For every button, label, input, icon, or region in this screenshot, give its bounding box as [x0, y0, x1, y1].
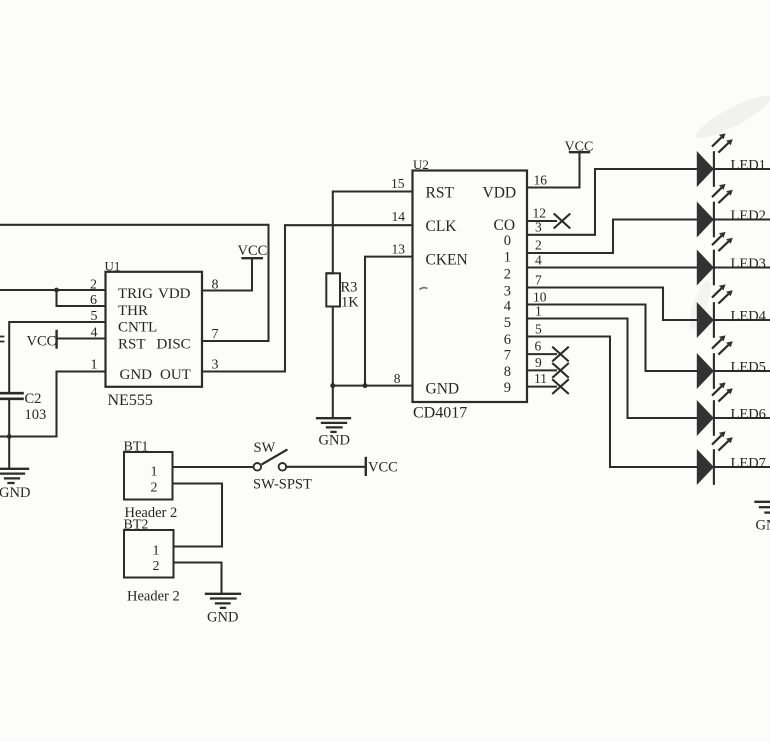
- wire U2 pin12 CO stub: [527, 220, 556, 222]
- svg-text:LED7: LED7: [731, 456, 766, 472]
- power VCC symbol above U2 pin16: [570, 151, 589, 153]
- IC U2 CD4017 box: [413, 171, 528, 403]
- node junction C2 bottom: [7, 434, 12, 439]
- wire BT1 pin1 to switch: [173, 466, 254, 468]
- wire Q1 pin2 to LED2: [527, 220, 698, 254]
- header BT1 box: [124, 452, 173, 500]
- svg-text:LED5: LED5: [731, 360, 766, 376]
- power VCC port bar at U1 pin4: [55, 331, 57, 348]
- wire DISC net to left edge: [0, 225, 269, 341]
- wire Q6 pin5 to LED7: [527, 337, 698, 468]
- scan smudge streak: [685, 278, 716, 332]
- LED D5: [697, 335, 770, 387]
- svg-text:LED2: LED2: [731, 208, 766, 224]
- wire U1 pin8 to VCC: [202, 258, 252, 290]
- svg-text:2: 2: [90, 278, 97, 293]
- op-amp U1 NE555 box: [106, 272, 203, 387]
- svg-text:SW-SPST: SW-SPST: [253, 477, 312, 493]
- svg-text:2: 2: [535, 238, 542, 253]
- no-connect X pin9: [553, 364, 568, 377]
- wire CNTL pin5 down to C2: [9, 322, 105, 393]
- wire Q3 pin7 to LED4: [527, 288, 698, 321]
- svg-text:5: 5: [91, 309, 98, 324]
- svg-text:7: 7: [535, 273, 542, 288]
- svg-text:3: 3: [535, 220, 542, 235]
- svg-text:3: 3: [212, 358, 219, 373]
- wire Q7 pin6 stub: [527, 353, 556, 355]
- svg-text:U2: U2: [413, 157, 429, 172]
- svg-text:8: 8: [394, 371, 401, 386]
- svg-text:1: 1: [153, 544, 160, 559]
- svg-text:9: 9: [504, 380, 511, 396]
- svg-text:6: 6: [535, 339, 542, 354]
- svg-text:VCC: VCC: [238, 243, 268, 259]
- wire GND net to U2 pin8: [333, 385, 413, 387]
- svg-text:RST: RST: [118, 337, 146, 353]
- wire Q9 pin11 stub: [527, 386, 556, 388]
- LED D3: [697, 232, 770, 284]
- LED D1: [697, 133, 770, 185]
- wire switch to VCC: [286, 466, 366, 468]
- svg-text:BT1: BT1: [124, 440, 149, 455]
- LED D6: [697, 382, 770, 434]
- resistor R3 body: [326, 273, 340, 306]
- svg-text:15: 15: [391, 176, 405, 191]
- svg-text:GND: GND: [120, 367, 153, 383]
- svg-text:LED6: LED6: [731, 407, 766, 423]
- scan tick near CKEN: [420, 288, 428, 290]
- power VCC symbol above U1 pin8: [243, 257, 262, 259]
- svg-text:U1: U1: [105, 259, 121, 274]
- svg-text:5: 5: [504, 315, 511, 331]
- svg-text:1K: 1K: [341, 295, 359, 311]
- wire Q2 pin4 to LED3: [527, 266, 698, 268]
- wire R3 top to RST pin15: [327, 192, 413, 274]
- wire BT1 pin2 to BT2 pin1: [173, 484, 223, 547]
- svg-text:VDD: VDD: [483, 185, 517, 202]
- svg-text:0: 0: [504, 233, 511, 249]
- svg-text:1: 1: [91, 358, 98, 373]
- svg-text:1: 1: [535, 304, 542, 319]
- wire U2 pin16 VDD to VCC: [527, 152, 580, 187]
- wire THR pin6 tie to pin2: [57, 290, 106, 306]
- wire C2 bottom lead: [8, 400, 10, 469]
- node junction CKEN gnd: [363, 383, 368, 388]
- svg-text:7: 7: [504, 348, 511, 364]
- wire Q4 pin10 to LED5: [527, 305, 698, 372]
- svg-text:5: 5: [535, 322, 542, 337]
- no-connect X pin11: [553, 380, 568, 393]
- svg-text:TRIG: TRIG: [118, 286, 153, 302]
- svg-text:4: 4: [91, 326, 98, 341]
- power VCC port bar at switch: [365, 458, 367, 475]
- svg-text:11: 11: [534, 371, 547, 386]
- ground symbol bottom-left: [0, 469, 28, 483]
- svg-text:CNTL: CNTL: [118, 320, 157, 336]
- wire GND net down to ground: [332, 386, 334, 418]
- svg-text:6: 6: [90, 293, 97, 308]
- svg-text:10: 10: [533, 290, 547, 305]
- svg-text:2: 2: [151, 481, 158, 496]
- wire Q8 pin9 stub: [527, 369, 556, 371]
- svg-text:1: 1: [151, 465, 158, 480]
- node junction R3 gnd: [330, 383, 335, 388]
- svg-text:2: 2: [504, 267, 511, 283]
- svg-text:4: 4: [535, 253, 542, 268]
- svg-text:CLK: CLK: [426, 218, 458, 235]
- wire Q5 pin1 to LED6: [527, 319, 698, 419]
- ground symbol right edge: [756, 502, 770, 513]
- svg-text:8: 8: [504, 364, 511, 380]
- wire GND pin1 down to C2 bottom node: [0, 372, 106, 437]
- svg-text:VCC: VCC: [565, 140, 594, 155]
- wire RST pin4 to VCC port: [57, 337, 106, 339]
- switch SW contact circles: [253, 463, 261, 471]
- wire TRIG pin2 to left edge: [0, 289, 106, 291]
- wire Q0 pin3 to LED1: [527, 169, 698, 235]
- wire CKEN pin13 down to GND net: [365, 257, 413, 386]
- svg-text:GND: GND: [207, 610, 238, 626]
- svg-text:1: 1: [504, 250, 511, 266]
- svg-text:12: 12: [533, 206, 547, 221]
- svg-text:OUT: OUT: [160, 367, 191, 383]
- svg-text:BT2: BT2: [124, 518, 149, 533]
- svg-text:VDD: VDD: [158, 286, 191, 302]
- svg-text:9: 9: [535, 355, 542, 370]
- wire BT2 pin2 to ground: [174, 563, 222, 594]
- svg-text:LED4: LED4: [731, 309, 767, 325]
- left edge cut marks: [0, 337, 4, 342]
- svg-text:6: 6: [504, 332, 511, 348]
- svg-text:VCC: VCC: [368, 460, 398, 476]
- svg-text:DISC: DISC: [157, 337, 191, 353]
- svg-text:GND: GND: [426, 381, 460, 398]
- LED D2: [697, 184, 770, 236]
- node junction pin2/pin6: [54, 288, 59, 293]
- no-connect X pin6: [553, 347, 568, 360]
- ground symbol below BT2: [206, 594, 240, 608]
- svg-text:3: 3: [504, 284, 511, 300]
- svg-text:7: 7: [212, 327, 219, 342]
- LED D7: [697, 431, 770, 483]
- svg-text:GND: GND: [0, 485, 30, 501]
- svg-text:Header 2: Header 2: [127, 589, 180, 605]
- svg-text:LED3: LED3: [731, 256, 766, 272]
- wire R3 bottom to GND net: [332, 307, 334, 386]
- header BT2 box: [124, 530, 174, 578]
- svg-text:14: 14: [392, 209, 406, 224]
- svg-text:103: 103: [25, 407, 47, 423]
- svg-text:VCC: VCC: [27, 334, 57, 350]
- LED D4: [697, 284, 770, 336]
- scan smudge top right: [692, 89, 770, 144]
- svg-text:8: 8: [212, 278, 219, 293]
- svg-text:LED1: LED1: [731, 158, 766, 174]
- svg-text:SW: SW: [254, 440, 276, 456]
- svg-text:CKEN: CKEN: [426, 252, 468, 269]
- svg-text:NE555: NE555: [108, 392, 153, 409]
- svg-text:RST: RST: [426, 185, 455, 202]
- svg-text:GND: GND: [756, 518, 770, 534]
- svg-text:GND: GND: [319, 433, 350, 449]
- svg-text:2: 2: [153, 559, 160, 574]
- ground symbol below U2: [317, 418, 350, 432]
- no-connect X pin12: [555, 214, 570, 228]
- svg-text:CO: CO: [494, 217, 516, 234]
- svg-text:16: 16: [534, 173, 548, 188]
- svg-text:4: 4: [504, 299, 512, 315]
- svg-text:R3: R3: [341, 280, 358, 296]
- svg-text:THR: THR: [118, 303, 148, 319]
- svg-text:CD4017: CD4017: [413, 405, 467, 422]
- svg-text:C2: C2: [25, 391, 42, 407]
- svg-text:13: 13: [392, 242, 406, 257]
- wire OUT(3) to CLK(14): [202, 225, 413, 371]
- switch SW lever: [263, 450, 287, 464]
- capacitor C2 plates: [0, 393, 23, 399]
